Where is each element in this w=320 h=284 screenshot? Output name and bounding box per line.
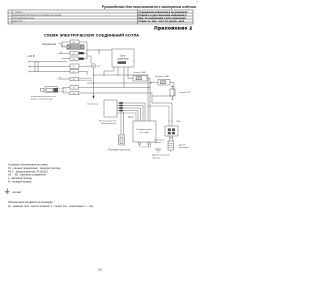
ignition drops <box>104 67 114 75</box>
power input lines <box>26 55 35 58</box>
line L <box>29 61 67 63</box>
plug label <box>31 95 56 101</box>
pin blob X3 <box>79 58 84 60</box>
svg-text:Обозначение расцветки на прово: Обозначение расцветки на проводах: <box>8 200 53 204</box>
pins right <box>119 102 123 104</box>
wire X7 left <box>63 87 70 93</box>
connector X7 (box8) <box>70 86 79 90</box>
svg-text:Гарантии: Гарантии <box>13 21 23 23</box>
svg-text:Терморегулятор: Терморегулятор <box>108 148 131 152</box>
plug connector <box>41 88 45 91</box>
svg-text:жз: жз <box>59 77 61 79</box>
connector X8 (box9) <box>70 91 79 95</box>
svg-text:Запальник: Запальник <box>87 104 99 106</box>
svg-text:Приложение 2: Приложение 2 <box>154 26 192 31</box>
wire X7 right long <box>79 87 151 121</box>
line PE <box>29 70 70 72</box>
svg-text:Предохр. ЭМК: Предохр. ЭМК <box>155 76 170 78</box>
svg-text:Обслуживание котла: Обслуживание котла <box>13 18 35 20</box>
svg-text:Автоматика: Автоматика <box>42 42 57 46</box>
connector X6 (box7) <box>70 77 79 80</box>
solenoid valve 1 <box>133 72 146 74</box>
svg-text:25: 25 <box>98 268 102 272</box>
wire X4 right to lamp <box>79 65 91 67</box>
svg-text:Блок управления: Блок управления <box>99 120 117 122</box>
connector X4 (box5) <box>70 64 79 68</box>
table row texts left <box>13 12 62 23</box>
svg-text:Справ. №, изм., лист, № докум.: Справ. №, изм., лист, № докум., дата <box>139 20 185 23</box>
label РУ-1 <box>61 45 66 47</box>
fuse terminal left <box>67 45 70 49</box>
fuse РУ-1 holder <box>67 45 84 50</box>
svg-text:горелка: горелка <box>154 142 162 144</box>
svg-text:Х8: Х8 <box>73 93 75 95</box>
svg-text:Глава 1: Глава 1 <box>15 12 24 14</box>
svg-text:Запорн. КГ1: Запорн. КГ1 <box>179 92 191 94</box>
svg-text:Датчик: Датчик <box>179 144 186 146</box>
svg-text:горелки: горелки <box>152 157 160 159</box>
overheat sensor coil box <box>165 126 178 136</box>
svg-text:РУ-1 - предохранитель 2А (5х20: РУ-1 - предохранитель 2А (5х20) <box>8 169 48 173</box>
wire box1 right <box>79 42 87 59</box>
label Автоматика <box>42 42 57 46</box>
wire X2 left with label <box>58 52 70 54</box>
taps verticals <box>35 62 38 72</box>
thermo interrupter vertical <box>170 89 175 96</box>
left leader labels <box>154 139 164 144</box>
ground mark <box>155 149 161 152</box>
gasbox feeder <box>147 75 149 121</box>
connector X1 (box1) <box>70 40 79 44</box>
svg-text:N - нулевой провод: N - нулевой провод <box>8 180 32 184</box>
dashed link to unit <box>59 88 67 91</box>
svg-text:Газовый клапан: Газовый клапан <box>136 128 153 131</box>
svg-text:(в сборе): (в сборе) <box>140 132 149 134</box>
pin blob X2 <box>79 52 84 54</box>
svg-text:L - фазовый провод: L - фазовый провод <box>8 176 32 180</box>
inner corner to sensor <box>148 106 169 126</box>
svg-text:зажигания: зажигания <box>117 58 129 61</box>
wire box1 left <box>62 42 70 47</box>
svg-text:Х4: Х4 <box>73 66 75 68</box>
svg-text:Х1 - разъем предохранит. термо: Х1 - разъем предохранит. терморегулятора <box>8 166 61 170</box>
svg-text:штепсельный разъем сети: штепсельный разъем сети <box>31 95 56 98</box>
gas valve unit box <box>133 121 156 142</box>
svg-text:Х2: Х2 <box>73 53 75 55</box>
wire X5 right <box>79 71 88 75</box>
svg-text:(электронный): (электронный) <box>101 122 116 125</box>
table row texts right (dense) <box>139 11 189 23</box>
svg-text:Х6: Х6 <box>73 79 75 81</box>
lamp feeder corner <box>87 56 91 64</box>
ignition unit box <box>112 49 134 67</box>
svg-text:Х3: Х3 <box>73 59 75 61</box>
svg-text:Х5: Х5 <box>73 71 75 73</box>
line N <box>29 65 70 67</box>
fuse terminal right <box>81 45 84 49</box>
mid horizontal wire <box>87 82 152 84</box>
twin gray wires right <box>79 78 93 80</box>
wire X8 left <box>63 92 70 94</box>
connector X2 (box3) <box>70 52 79 56</box>
fan wires to gas unit <box>117 103 145 121</box>
svg-text:~ 220 В: ~ 220 В <box>26 55 35 58</box>
indicator lamp <box>91 64 95 68</box>
revision table frame <box>8 10 193 24</box>
wire X8 right corner to sensor <box>79 93 173 126</box>
svg-text:Запорн. ЭМК: Запорн. ЭМК <box>133 72 146 74</box>
long wire y75 <box>94 74 149 76</box>
wires below sensor <box>170 136 173 141</box>
svg-text:СХЕМА ЭЛЕКТРИЧЕСКИХ СОЕДИНЕНИЙ: СХЕМА ЭЛЕКТРИЧЕСКИХ СОЕДИНЕНИЙ КОТЛА <box>44 32 139 37</box>
svg-text:Х2 ... Х8 - разъемы соединения: Х2 ... Х8 - разъемы соединения <box>8 173 47 177</box>
connector X3 (box4) <box>70 57 79 61</box>
svg-text:(вилка + розетка) шнур: (вилка + розетка) шнур <box>31 98 53 100</box>
thermocouple hatched <box>168 141 174 150</box>
gas unit bottom terminals <box>138 142 140 144</box>
svg-text:кр - красный, жлз - желто-зеле: кр - красный, жлз - желто-зеленый, с - с… <box>8 204 94 208</box>
svg-text:Требования безопасности и прав: Требования безопасности и правила устано… <box>13 15 62 17</box>
terminal ticks <box>28 61 30 73</box>
leader wire from label <box>59 43 63 45</box>
svg-text:Условные обозначения на схеме:: Условные обозначения на схеме: <box>8 163 49 167</box>
lamp bottom stem <box>93 68 95 75</box>
svg-text:Датчик запальной: Датчик запальной <box>152 154 170 157</box>
drop arrow (запальник) <box>93 75 95 97</box>
solenoid valve 2 <box>155 76 170 78</box>
wire to ignition unit <box>87 49 112 51</box>
control (ignition driver) box <box>104 100 117 117</box>
svg-text:- контакт: - контакт <box>11 191 22 194</box>
svg-text:Запальная: Запальная <box>154 139 164 141</box>
ground legend symbol <box>5 189 10 195</box>
svg-text:Руководство для пользователя с: Руководство для пользователя с паспортом… <box>102 5 196 9</box>
svg-text:Х7: Х7 <box>73 87 75 89</box>
connector X5 (box6) <box>70 70 79 74</box>
thermostat capillary <box>121 112 124 136</box>
fuse body <box>71 46 82 49</box>
svg-text:перегрева: перегрева <box>179 147 190 149</box>
